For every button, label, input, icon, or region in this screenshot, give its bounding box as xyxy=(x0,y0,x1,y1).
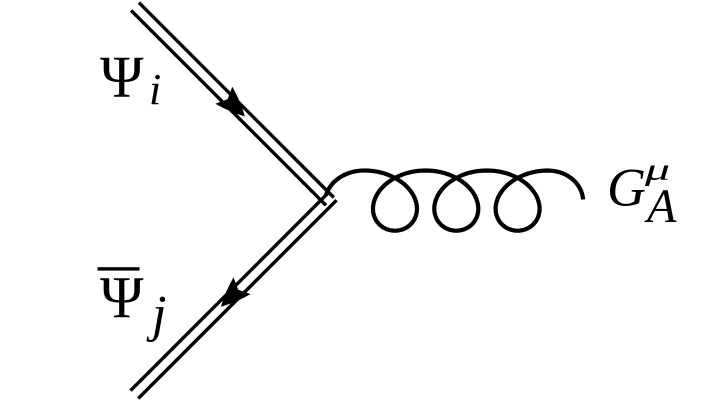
svg-text:G: G xyxy=(607,158,646,218)
svg-text:Ψ: Ψ xyxy=(100,264,144,330)
svg-text:Ψ: Ψ xyxy=(100,44,144,110)
svg-text:A: A xyxy=(644,180,677,233)
svg-text:i: i xyxy=(149,65,161,114)
